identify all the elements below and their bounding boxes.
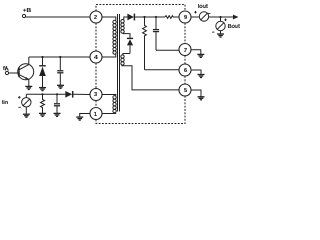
wire emitter down bbox=[28, 79, 30, 86]
wire W2a top to diode D2 bbox=[124, 17, 128, 20]
wire primary bottom to pin4 bbox=[102, 54, 116, 57]
wire +B to pin 2 bbox=[26, 16, 90, 18]
wire bottom rail bbox=[26, 93, 65, 95]
wire pin5 to ground bbox=[191, 90, 201, 97]
node junction D1 bbox=[41, 56, 43, 58]
ground R3 bbox=[39, 113, 46, 116]
pin 1 bbox=[90, 108, 102, 120]
transistor Q1 bbox=[18, 64, 34, 80]
ground Iin bbox=[23, 114, 30, 117]
pin 7 bbox=[179, 44, 191, 56]
meter Bout voltmeter bbox=[212, 19, 240, 33]
ground pin5 bbox=[198, 97, 205, 100]
resistor R3 vertical bbox=[41, 94, 45, 113]
ground Bout bbox=[217, 34, 224, 37]
wire dashed right column bbox=[184, 23, 186, 44]
diode D1 damper bbox=[39, 57, 46, 88]
wire D3 to W2b bbox=[123, 54, 130, 56]
wire Iin meter bottom bbox=[25, 107, 27, 114]
winding W3 feedback bbox=[113, 96, 116, 113]
node junction C2 bbox=[155, 16, 157, 18]
node output junction bbox=[219, 16, 221, 18]
diode D2 rectifier bbox=[127, 14, 134, 21]
resistor R1 vertical bbox=[143, 17, 147, 70]
wire fin to base bbox=[9, 72, 19, 74]
wire D4 to pin 3 bbox=[73, 93, 90, 95]
wire Iin meter top to bottom rail bbox=[25, 94, 27, 97]
wire R1 to pin 6 bbox=[145, 69, 180, 71]
wire D2 to pin 9 bbox=[135, 16, 165, 18]
wire W2a bottom to clamp diode bbox=[123, 34, 130, 38]
wire pin6 to ground bbox=[191, 70, 201, 74]
wire pin9 to ammeter bbox=[191, 16, 199, 18]
winding W2b secondary bottom bbox=[121, 55, 124, 65]
wire dashed bottom bbox=[96, 96, 185, 124]
pin 3 bbox=[90, 89, 102, 101]
wire voltmeter to ground bbox=[220, 31, 222, 34]
capacitor C3 bbox=[54, 94, 60, 113]
ground C1 bbox=[57, 85, 64, 88]
wire dashed top left bbox=[96, 5, 185, 12]
wire pin7 to ground bbox=[191, 50, 201, 55]
pin 5 bbox=[179, 84, 191, 96]
pin 4 bbox=[90, 51, 102, 63]
ground pin6 bbox=[198, 75, 205, 78]
wire junction to voltmeter bbox=[220, 17, 222, 21]
resistor R2 horizontal bbox=[165, 16, 179, 19]
node junction C1 bbox=[59, 56, 61, 58]
ground D1 bbox=[39, 88, 46, 91]
node +B terminal bbox=[22, 8, 31, 18]
output arrow bbox=[233, 15, 239, 20]
pin 6 bbox=[179, 64, 191, 76]
node fin terminal bbox=[3, 66, 9, 75]
meter Iin bbox=[2, 96, 31, 107]
pin 2 bbox=[90, 11, 102, 23]
capacitor C2 bbox=[153, 17, 159, 50]
capacitor C1 bbox=[57, 57, 63, 85]
wire W2b to pin 5 bbox=[121, 66, 179, 90]
winding W2a secondary top bbox=[121, 20, 124, 34]
ground pin7 bbox=[197, 54, 204, 57]
ground Q1 emitter bbox=[25, 86, 32, 89]
node junction R1 bbox=[143, 16, 145, 18]
wire C2 to pin 7 bbox=[156, 49, 179, 51]
winding W1 primary bbox=[113, 20, 116, 54]
ground C3 bbox=[54, 113, 61, 116]
wire collector rail bbox=[29, 56, 90, 58]
diode D4 bbox=[65, 91, 72, 98]
diode D3 clamp bbox=[127, 38, 133, 53]
wire ammeter to output arrow bbox=[209, 16, 234, 18]
transformer core bbox=[118, 14, 120, 112]
wire collector up to rail bbox=[28, 57, 30, 65]
wire pin3 to feedback winding bbox=[102, 95, 116, 96]
node junction C3 bbox=[56, 93, 58, 95]
pin 9 bbox=[179, 11, 191, 23]
wire dashed left column bbox=[95, 23, 97, 51]
wire winding W3 to pin1 bbox=[102, 112, 116, 114]
ground pin1 bbox=[76, 117, 83, 120]
node junction R3 bbox=[41, 93, 43, 95]
wire pin1 to ground bbox=[80, 114, 90, 118]
wire pin2 to primary bbox=[102, 17, 116, 20]
meter Iout ammeter bbox=[194, 4, 210, 21]
